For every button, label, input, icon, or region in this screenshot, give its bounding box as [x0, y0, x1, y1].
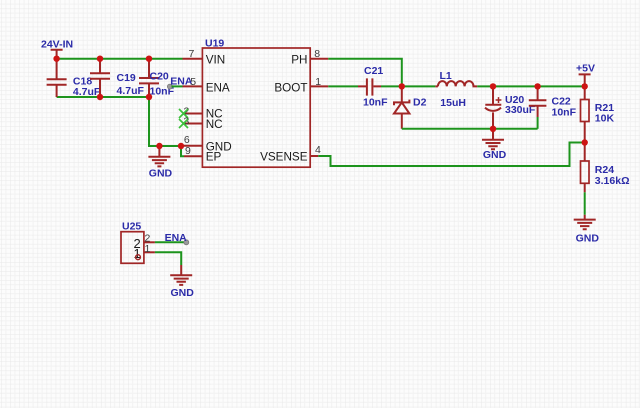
wire EP connection — [181, 146, 184, 156]
pin 4 VSENSE — [260, 144, 321, 164]
capacitor C22 — [529, 86, 577, 118]
pin 8 PH — [291, 48, 328, 66]
svg-text:C20: C20 — [150, 70, 169, 82]
pin 6 GND — [183, 134, 232, 153]
svg-text:10nF: 10nF — [552, 106, 577, 118]
svg-text:8: 8 — [314, 48, 320, 60]
no-connect X pin 2 — [179, 109, 188, 118]
wire C22 bottom — [537, 117, 539, 129]
svg-text:GND: GND — [483, 149, 507, 161]
svg-text:ENA: ENA — [165, 232, 188, 244]
svg-text:10nF: 10nF — [363, 96, 388, 108]
svg-text:D2: D2 — [413, 96, 427, 108]
svg-text:L1: L1 — [440, 70, 452, 82]
pin 9 EP — [184, 145, 221, 164]
junction dot C19 top — [97, 56, 103, 62]
pin 7 VIN — [183, 48, 226, 66]
junction dot +5V — [582, 83, 588, 89]
junction dot C20 bottom — [146, 94, 152, 100]
ground GND under R24 — [574, 215, 600, 245]
pin 3 NC — [183, 115, 223, 130]
svg-text:R24: R24 — [595, 164, 614, 176]
svg-text:BOOT: BOOT — [274, 82, 307, 95]
svg-text:C21: C21 — [364, 65, 383, 77]
pin 5 ENA — [183, 76, 230, 95]
svg-text:C19: C19 — [117, 72, 136, 84]
op-amp U19 body — [202, 48, 310, 167]
svg-text:7: 7 — [189, 48, 195, 60]
svg-text:4.7uF: 4.7uF — [73, 86, 101, 98]
svg-text:ENA: ENA — [206, 82, 230, 95]
wire U25 pin1 to ground — [155, 252, 181, 265]
net label ENA port dot — [184, 240, 189, 245]
svg-text:4.7uF: 4.7uF — [117, 85, 145, 97]
no-connect X pin 3 — [179, 119, 188, 128]
ground GND under U20 — [482, 129, 507, 161]
power flag +5V — [576, 63, 595, 87]
svg-text:1: 1 — [145, 243, 151, 255]
svg-text:VIN: VIN — [206, 53, 225, 66]
svg-text:U25: U25 — [122, 220, 141, 232]
junction dot switch node — [399, 83, 405, 89]
wire R24 to ground — [584, 192, 586, 215]
junction dot U20 top — [490, 83, 496, 89]
pin 2 of U25 — [133, 233, 154, 252]
ground GND under U25 — [170, 265, 194, 299]
pin 1 of U25 — [133, 243, 154, 261]
ground GND under C20 rail — [148, 146, 172, 179]
junction dot U20 bottom — [490, 126, 496, 132]
wire VSENSE feedback — [318, 143, 584, 167]
junction dot feedback node — [582, 139, 588, 145]
svg-text:4: 4 — [315, 144, 321, 156]
svg-text:U19: U19 — [205, 37, 224, 49]
svg-text:+5V: +5V — [576, 63, 595, 75]
wire low-side rail D2 to C22 — [402, 128, 538, 130]
connector U25 body — [121, 232, 144, 264]
svg-text:1: 1 — [315, 76, 321, 88]
svg-text:9: 9 — [185, 145, 191, 157]
junction dot C22 top — [534, 83, 540, 89]
capacitor C19 — [90, 59, 145, 97]
svg-text:GND: GND — [576, 232, 600, 244]
capacitor C20 — [139, 59, 175, 98]
net label ENA5 port dot — [167, 84, 172, 89]
wire C20 bottom down to GND rail — [149, 97, 184, 146]
wire U25 pin2 to ENA port — [155, 241, 184, 243]
svg-text:5: 5 — [190, 76, 196, 88]
inductor L1 — [435, 70, 477, 109]
svg-text:EP: EP — [206, 151, 222, 164]
svg-text:3.16kΩ: 3.16kΩ — [595, 175, 630, 187]
junction dot C20 top — [146, 56, 152, 62]
svg-text:GND: GND — [171, 287, 195, 299]
wire bottom rail C18-C19-C20 — [57, 96, 149, 98]
junction dot EP tap — [178, 143, 184, 149]
svg-text:VSENSE: VSENSE — [260, 151, 308, 164]
pin 2 NC — [183, 105, 223, 120]
wire switch node to L1 — [402, 85, 436, 87]
capacitor U20 polarized — [485, 86, 536, 128]
svg-text:NC: NC — [206, 118, 223, 131]
resistor R24 — [581, 143, 630, 193]
diode D2 — [394, 86, 427, 128]
svg-text:GND: GND — [149, 167, 173, 179]
wire BOOT to C21 — [328, 85, 358, 87]
wire PH to switch node — [328, 59, 402, 87]
wire C21 to switch node — [381, 85, 402, 87]
svg-text:15uH: 15uH — [440, 97, 466, 109]
resistor R21 — [581, 86, 615, 142]
capacitor C21 — [358, 65, 388, 108]
pin 1 BOOT — [274, 76, 328, 95]
junction dot GND tap — [156, 143, 162, 149]
capacitor C18 — [47, 59, 101, 98]
svg-text:PH: PH — [291, 53, 307, 66]
wire L1 to +5V rail — [477, 85, 585, 87]
svg-text:10K: 10K — [595, 113, 615, 125]
wire top rail 24V-IN to VIN — [57, 58, 183, 60]
wire ENA stub to port — [172, 85, 183, 87]
junction dot 24V-IN / C18 top — [53, 56, 59, 62]
power flag 24V-IN — [41, 39, 73, 59]
junction dot C19 bottom — [97, 94, 103, 100]
